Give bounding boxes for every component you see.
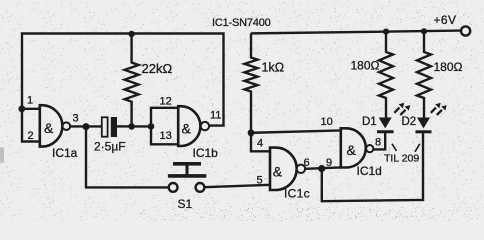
svg-text:D2: D2 [402,116,417,128]
svg-text:IC1a: IC1a [52,146,78,160]
svg-text:&: & [182,120,192,136]
pin 11 label [210,110,221,122]
label D1 [362,116,377,128]
wire: S1 to IC1c pin 5 [204,185,270,187]
svg-text:1: 1 [27,95,33,107]
wire: top right power rail [251,31,461,34]
pin 10 label [321,116,333,128]
value label 2.5uF [94,140,126,154]
pin 4 label [257,138,263,150]
leader line to D1 [392,144,397,151]
wire: junction down and along bottom to S1 [86,126,169,187]
wire: IC1b input tie bracket [151,108,178,145]
wire: IC1c out to IC1d pin 9 [305,167,341,168]
pin 5 label [257,175,263,187]
pin 3 label [73,112,79,124]
label IC1d [357,164,382,178]
wire: capacitor to junction [117,125,132,127]
nand gate IC1a [40,105,70,146]
svg-text:8: 8 [375,137,381,149]
value label 22k [142,61,173,76]
LED D1 arrows [394,103,410,115]
node: junction IC1c out [318,165,325,172]
resistor R4 180 right [417,31,431,117]
node: junction 22k at top rail [128,31,134,37]
svg-text:22kΩ: 22kΩ [142,61,173,76]
resistor R1 22k [125,34,139,127]
nand gate IC1d [341,128,374,167]
svg-text:2: 2 [28,130,34,142]
label S1 [178,197,193,211]
value label 1k [262,61,285,75]
node: junction at IC1a input tie [18,105,25,112]
pin 8 label [375,137,381,149]
pin 1 label [27,95,33,107]
LED D2 [416,118,432,132]
label IC1b [193,146,219,160]
node: junction 180 left at rail [383,29,389,35]
nand gate IC1c [270,148,305,190]
svg-text:12: 12 [160,96,172,108]
resistor R3 180 left [379,32,393,118]
svg-text:6: 6 [304,157,310,169]
svg-text:1kΩ: 1kΩ [262,61,285,75]
label TIL 209 [384,153,419,165]
node: junction pin3 / S1 branch [83,123,90,130]
terminal +6V [461,26,470,35]
label D2 [402,116,417,128]
leader line to D2 [415,144,420,152]
node: junction cap / 22k [128,123,135,130]
svg-text:5: 5 [257,175,263,187]
node: junction 180 right at rail [421,28,427,34]
svg-text:180Ω: 180Ω [351,59,380,73]
wire: junction to IC1c pin 4 [251,133,271,152]
svg-text:180Ω: 180Ω [434,60,463,74]
pushbutton S1 [168,164,206,192]
pin 13 label [160,130,172,142]
wire: junction to IC1b input bracket [132,125,151,127]
value label 180 left [351,59,380,73]
resistor R2 1k [245,33,258,132]
pin 2 label [28,130,34,142]
label IC1c [284,187,310,201]
label IC1-SN7400 [212,17,271,29]
node: junction 1k bottom [248,129,255,136]
scan smudge left edge [0,147,4,163]
svg-text:2·5µF: 2·5µF [94,140,126,154]
svg-text:4: 4 [257,138,263,150]
svg-text:&: & [273,163,283,179]
pin 12 label [160,96,172,108]
svg-text:IC1b: IC1b [193,146,219,160]
svg-text:&: & [347,142,357,158]
pin 6 label [304,157,310,169]
wire: pin 3 to capacitor [70,125,102,127]
svg-text:+6V: +6V [434,13,457,27]
svg-text:IC1d: IC1d [357,164,382,178]
svg-text:11: 11 [210,110,221,122]
svg-text:IC1c: IC1c [284,187,310,201]
svg-text:D1: D1 [362,116,377,128]
svg-text:&: & [44,120,54,136]
LED D1 [377,118,394,132]
svg-text:S1: S1 [178,197,193,211]
pin 9 label [326,157,332,169]
capacitor C1 2.5uF [102,117,117,137]
nand gate IC1b [178,106,209,146]
label IC1a [52,146,78,160]
svg-text:13: 13 [160,130,172,142]
wire: junction down, along bottom, up to D2 cathode [322,133,423,201]
node: junction at IC1b bracket [148,123,155,130]
wire: pin 8 to D1 cathode [374,133,386,149]
LED D2 arrows [431,103,447,115]
wire: feedback loop IC1b out to IC1a inputs [22,34,224,142]
value label 180 right [434,60,463,74]
svg-text:IC1-SN7400: IC1-SN7400 [212,17,271,29]
wire: pin 1 stub [22,108,41,110]
svg-text:TIL 209: TIL 209 [384,153,419,165]
label +6V [434,13,457,27]
svg-text:3: 3 [73,112,79,124]
wire: junction to IC1d pin 10 [251,130,341,132]
svg-text:10: 10 [321,116,333,128]
